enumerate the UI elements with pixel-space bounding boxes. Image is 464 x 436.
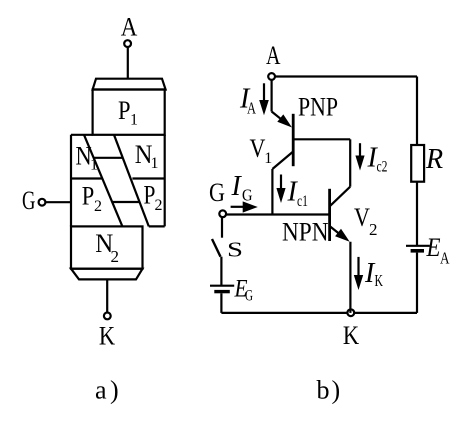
- diagonal cut line 2: [114, 135, 149, 227]
- svg-text:G: G: [209, 178, 225, 207]
- battery E_A short plate: [411, 249, 424, 253]
- svg-text:G: G: [245, 288, 253, 305]
- svg-text:P: P: [82, 182, 95, 211]
- transistor V2 emitter with arrow: [330, 227, 349, 242]
- svg-text:1: 1: [151, 155, 159, 172]
- svg-text:1: 1: [90, 157, 98, 174]
- node G circle (circuit): [219, 210, 226, 217]
- diagonal cut line 1: [84, 135, 122, 227]
- svg-text:V: V: [354, 203, 370, 232]
- layer P1 top face: [93, 79, 166, 90]
- transistor V1 base bar: [292, 114, 295, 166]
- switch S blade: [212, 239, 221, 257]
- current arrow I_A: [259, 83, 269, 115]
- svg-text:b: b: [317, 376, 330, 405]
- svg-text:A: A: [440, 249, 450, 268]
- svg-text:K: K: [343, 321, 359, 350]
- terminal A circle (structure): [124, 40, 131, 47]
- svg-text:c2: c2: [377, 159, 388, 176]
- wire G to V2 base: [227, 213, 330, 215]
- svg-text:K: K: [375, 271, 384, 290]
- svg-text:I: I: [231, 171, 243, 202]
- wire V2 emitter to K: [349, 242, 351, 313]
- svg-text:S: S: [227, 238, 243, 262]
- svg-text:A: A: [247, 99, 257, 118]
- svg-text:2: 2: [111, 247, 120, 266]
- transistor V1 emitter with arrow: [272, 112, 292, 128]
- N1/P2 boundary right: [132, 177, 164, 179]
- transistor V2 base bar: [328, 189, 331, 241]
- svg-text:): ): [110, 376, 119, 405]
- wire R to battery: [416, 182, 418, 246]
- current arrow I_c1: [276, 175, 285, 204]
- svg-text:A: A: [121, 13, 138, 42]
- svg-text:2: 2: [369, 220, 378, 239]
- svg-text:PNP: PNP: [298, 92, 338, 121]
- battery E_G long plate: [210, 285, 234, 287]
- resistor R body: [411, 145, 424, 182]
- layer stack top line: [71, 134, 93, 136]
- wire right branch upper: [416, 77, 418, 146]
- current arrow I_K: [354, 257, 363, 290]
- svg-text:2: 2: [94, 198, 102, 215]
- wire A down: [271, 80, 273, 112]
- wire A to top-right corner: [275, 75, 417, 77]
- node A circle (circuit): [268, 73, 275, 80]
- wire battery to bottom wire: [220, 293, 222, 313]
- svg-text:1: 1: [264, 150, 272, 167]
- layer N2 bottom face: [71, 269, 143, 280]
- wire G to stack: [46, 201, 71, 203]
- current arrow I_c2: [355, 143, 364, 170]
- svg-text:R: R: [425, 144, 443, 175]
- svg-text:G: G: [22, 186, 35, 215]
- layer N2 body: [71, 226, 143, 268]
- terminal K circle (structure): [104, 313, 111, 320]
- terminal G circle (structure): [39, 199, 46, 206]
- transistor V2 collector diagonal: [330, 187, 350, 206]
- svg-text:E: E: [426, 233, 441, 262]
- svg-text:P: P: [118, 96, 131, 125]
- svg-text:NPN: NPN: [282, 217, 329, 246]
- battery E_A long plate: [406, 245, 430, 247]
- svg-text:c1: c1: [297, 193, 308, 210]
- svg-text:K: K: [99, 322, 115, 351]
- transistor V1 base wire: [293, 138, 350, 140]
- svg-text:G: G: [242, 185, 253, 204]
- wire V1 base to V2 collector: [349, 139, 351, 186]
- svg-text:A: A: [266, 41, 281, 70]
- current arrow I_G: [231, 201, 258, 212]
- wire switch to battery: [220, 257, 222, 286]
- wire A to P1: [127, 48, 129, 79]
- N1/P2 boundary middle lower: [112, 201, 139, 203]
- layer P1 body: [93, 90, 165, 135]
- svg-text:): ): [332, 376, 341, 405]
- svg-text:1: 1: [130, 112, 138, 129]
- node K circle (circuit): [347, 309, 354, 316]
- battery E_G short plate: [214, 290, 230, 293]
- wire battery to bottom-right corner: [416, 253, 418, 313]
- bottom wire: [221, 312, 417, 314]
- transistor V1 collector wire down: [271, 169, 273, 215]
- wire G circle down to switch: [221, 218, 223, 238]
- wire K (structure): [106, 279, 108, 312]
- svg-text:2: 2: [155, 197, 163, 214]
- transistor V1 collector diagonal: [272, 152, 293, 170]
- svg-text:V: V: [250, 134, 266, 163]
- N1/P2 boundary middle upper: [94, 157, 123, 159]
- layer stack left edge: [70, 135, 72, 227]
- layer stack right edge: [164, 135, 166, 227]
- svg-text:a: a: [95, 376, 107, 405]
- right P2 bottom edge: [149, 225, 165, 227]
- N1/P2 boundary left: [71, 177, 102, 179]
